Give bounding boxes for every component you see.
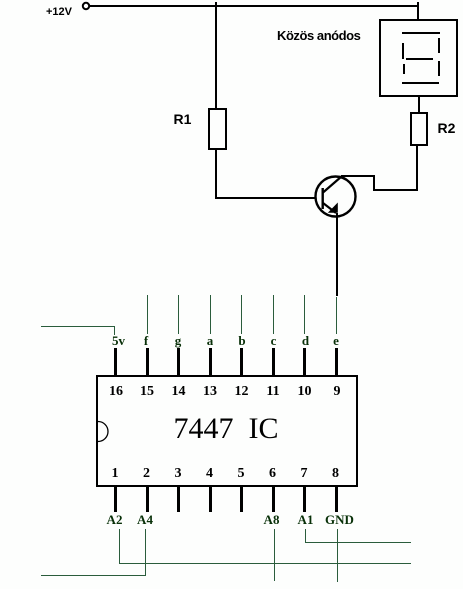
wire base into transistor bbox=[310, 197, 316, 199]
wire R1 branch vertical bbox=[215, 2, 217, 109]
segment d bottom bbox=[402, 82, 439, 84]
wire R1 bottom lead bbox=[215, 149, 217, 199]
wire green 5v horizontal bbox=[41, 326, 115, 327]
pin 9 stub bbox=[335, 348, 338, 382]
wire green GND vertical bbox=[337, 529, 338, 582]
label R2 bbox=[438, 121, 456, 135]
wire green bus horizontal lower-left bbox=[41, 575, 145, 576]
segment c lower-right bbox=[438, 61, 440, 76]
transistor circle bbox=[316, 177, 356, 217]
wire green A1 horizontal bbox=[305, 542, 411, 543]
wire green f bbox=[147, 295, 148, 334]
pin 15 stub bbox=[146, 348, 149, 382]
pin number 6 bbox=[269, 467, 276, 481]
wire green c bbox=[273, 295, 274, 334]
resistor R1 bbox=[208, 108, 227, 150]
pin number 2 bbox=[143, 467, 150, 481]
label R1 bbox=[174, 112, 192, 126]
pin number 7 bbox=[301, 467, 308, 481]
op IC U1 7447 body bbox=[96, 375, 358, 487]
pin number 1 bbox=[112, 467, 119, 481]
wire emitter vertical black bbox=[336, 213, 338, 296]
pin number 12 bbox=[235, 385, 249, 399]
pin number 8 bbox=[332, 467, 339, 481]
pin number 4 bbox=[206, 467, 213, 481]
terminal circle +12V bbox=[80, 0, 94, 14]
pin 13 stub bbox=[209, 348, 212, 382]
label b bbox=[238, 334, 245, 347]
pin number 5 bbox=[238, 467, 245, 481]
pin 12 stub bbox=[240, 348, 243, 382]
pin 8 stub bbox=[335, 485, 338, 512]
wire 7seg bottom lead bbox=[418, 95, 420, 113]
pin 2 stub bbox=[146, 485, 149, 512]
wire base horizontal bbox=[215, 197, 316, 199]
resistor R2 bbox=[410, 112, 428, 146]
label GND bbox=[325, 513, 354, 526]
segment b upper-right bbox=[438, 38, 440, 53]
pin number 14 bbox=[172, 385, 186, 399]
label g bbox=[175, 334, 182, 347]
segment g middle bbox=[406, 58, 433, 60]
7-segment display box bbox=[379, 19, 458, 97]
label 7447 IC bbox=[174, 414, 279, 444]
pin 5 stub bbox=[240, 485, 243, 512]
pin 3 stub bbox=[177, 485, 180, 512]
wire green g bbox=[178, 295, 179, 334]
wire green A8 vertical bbox=[274, 529, 275, 581]
wire green b bbox=[241, 295, 242, 334]
wire green A4 vertical bbox=[145, 529, 146, 576]
pin number 9 bbox=[334, 385, 341, 399]
segment a top bbox=[402, 32, 440, 34]
wire green e bbox=[336, 297, 337, 334]
pin 6 stub bbox=[272, 485, 275, 512]
transistor Q1 bbox=[310, 171, 365, 221]
pin number 10 bbox=[298, 385, 312, 399]
transistor emitter diagonal bbox=[323, 203, 336, 213]
pin 10 stub bbox=[303, 348, 306, 382]
pin 16 stub bbox=[114, 348, 117, 382]
label A4 bbox=[137, 513, 153, 526]
wire green 5v drop bbox=[114, 326, 115, 335]
transistor emitter arrow bbox=[328, 203, 338, 213]
label a bbox=[207, 334, 214, 347]
label A8 bbox=[264, 513, 280, 526]
pin 4 stub bbox=[209, 485, 212, 512]
pin number 13 bbox=[203, 385, 217, 399]
IC notch bbox=[97, 420, 111, 444]
wire collector jog vertical bbox=[373, 175, 375, 191]
label Közös anódos bbox=[277, 29, 360, 42]
pin number 3 bbox=[175, 467, 182, 481]
segment e lower-left bbox=[403, 64, 405, 74]
wire green bus horizontal middle bbox=[119, 563, 411, 564]
node +12V label bbox=[46, 7, 72, 18]
label 5v bbox=[112, 334, 125, 347]
wire collector horizontal upper bbox=[341, 175, 375, 177]
pin 1 stub bbox=[114, 485, 117, 512]
label A1 bbox=[298, 513, 314, 526]
wire collector jog horizontal lower bbox=[373, 189, 418, 191]
label e bbox=[333, 334, 339, 347]
label f bbox=[144, 334, 148, 347]
pin number 15 bbox=[140, 385, 154, 399]
wire green a bbox=[210, 295, 211, 334]
pin 14 stub bbox=[177, 348, 180, 382]
label d bbox=[302, 334, 309, 347]
wire green A1 vertical bbox=[305, 529, 306, 543]
segment f upper-left bbox=[402, 43, 404, 59]
transistor base bar bbox=[322, 188, 324, 209]
wire 7seg top lead bbox=[417, 2, 419, 21]
label A2 bbox=[107, 513, 123, 526]
wire green d bbox=[304, 295, 305, 334]
wire +12V rail bbox=[89, 5, 419, 7]
pin 11 stub bbox=[272, 348, 275, 382]
wire R2 bottom lead bbox=[416, 145, 418, 191]
wire green A2 vertical bbox=[119, 529, 120, 564]
pin number 11 bbox=[266, 385, 279, 399]
label c bbox=[271, 334, 277, 347]
pin number 16 bbox=[109, 385, 123, 399]
transistor collector diagonal bbox=[323, 177, 342, 193]
pin 7 stub bbox=[303, 485, 306, 512]
